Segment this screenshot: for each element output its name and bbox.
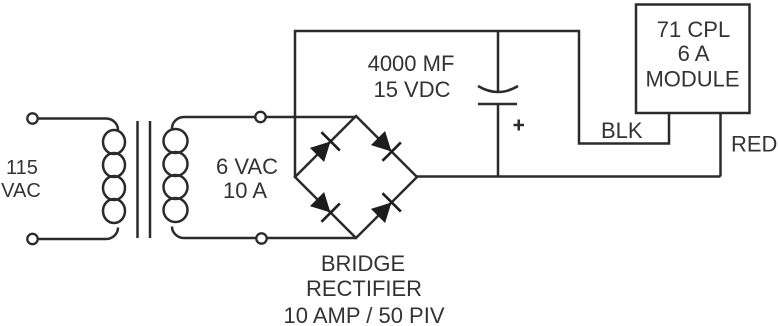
svg-text:10 A: 10 A (223, 178, 267, 203)
svg-text:10 AMP / 50 PIV: 10 AMP / 50 PIV (283, 303, 444, 326)
svg-text:RECTIFIER: RECTIFIER (306, 276, 422, 301)
svg-text:RED: RED (731, 132, 777, 157)
svg-text:6 A: 6 A (678, 41, 710, 66)
svg-text:15 VDC: 15 VDC (373, 77, 450, 102)
svg-text:115: 115 (6, 157, 38, 179)
svg-text:MODULE: MODULE (645, 67, 739, 92)
svg-text:VAC: VAC (1, 180, 41, 202)
svg-text:BLK: BLK (601, 118, 643, 143)
svg-text:71 CPL: 71 CPL (657, 17, 730, 42)
svg-text:6 VAC: 6 VAC (216, 154, 278, 179)
svg-text:BRIDGE: BRIDGE (321, 251, 405, 276)
svg-text:4000 MF: 4000 MF (368, 51, 455, 76)
